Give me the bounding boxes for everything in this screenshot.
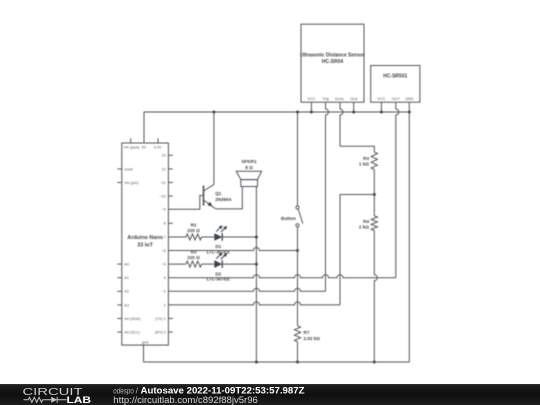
svg-text:HC-SR501: HC-SR501 <box>383 74 407 80</box>
LED D1 LTL-307EE symbol <box>214 233 222 241</box>
svg-text:VCC: VCC <box>307 97 315 101</box>
svg-text:A1: A1 <box>124 276 129 280</box>
ultrasonic sensor U2 HC-SR04 box <box>301 24 364 102</box>
svg-text:Q1: Q1 <box>215 191 222 196</box>
svg-text:reset: reset <box>124 167 133 171</box>
svg-text:LAB: LAB <box>67 395 92 405</box>
svg-text:~3: ~3 <box>161 290 165 294</box>
svg-text:http://circuitlab.com/c892f88j: http://circuitlab.com/c892f88jv5r96 <box>113 395 258 405</box>
switch SW1 Button <box>296 206 299 209</box>
svg-text:2.02 kΩ: 2.02 kΩ <box>304 336 321 341</box>
svg-text:220 Ω: 220 Ω <box>187 228 200 233</box>
node junction R4 at ground bus <box>373 361 376 364</box>
wire R3 to D2 <box>202 263 215 265</box>
svg-text:220 Ω: 220 Ω <box>187 255 200 260</box>
svg-text:~5: ~5 <box>161 263 165 267</box>
svg-text:R7: R7 <box>304 330 310 335</box>
svg-text:Ultrasonic Distance Sensor: Ultrasonic Distance Sensor <box>300 53 365 59</box>
node junction button top on 5V rail <box>296 111 299 114</box>
svg-text:HC-SR04: HC-SR04 <box>322 59 344 65</box>
svg-text:Gnd: Gnd <box>350 97 357 101</box>
svg-text:A5 (SCL): A5 (SCL) <box>124 331 140 335</box>
svg-text:gnd: gnd <box>142 340 148 344</box>
resistor R7 2.02k <box>294 326 300 342</box>
svg-text:~10: ~10 <box>159 195 165 199</box>
wire D2 cathode to speaker leg <box>222 263 256 265</box>
mcu U1 Arduino Nano 33 IoT box <box>122 143 169 345</box>
svg-text:(TX) 1: (TX) 1 <box>155 317 166 321</box>
svg-text:~9: ~9 <box>161 208 165 212</box>
wire divider node to R4 <box>373 195 375 216</box>
pin stubs left side (reset, Vin(pin), A0-A5) <box>117 168 121 170</box>
svg-text:A0: A0 <box>124 263 129 267</box>
wire HC-SR04 VCC pin to rail <box>310 102 312 112</box>
svg-text:(RX) 0: (RX) 0 <box>155 331 166 335</box>
node junction HC-SR501 VCC on rail <box>380 111 383 114</box>
wire pin ~3 row to Trig <box>168 288 325 291</box>
transistor Q1 2N3904 <box>203 186 205 206</box>
pin stub Vin (jack) top <box>130 138 132 143</box>
wire Arduino pin ~9 to Q1 base <box>168 196 203 210</box>
node junction Q1 collector on 5V rail <box>212 111 215 114</box>
node junction R7 at ground bus <box>296 361 299 364</box>
LED D2 LTL-307EE symbol <box>214 260 222 268</box>
wire Q1 emitter to speaker left leg <box>216 187 243 209</box>
wire speaker right leg down to ground bus <box>255 187 257 363</box>
svg-text:R3: R3 <box>363 156 369 161</box>
svg-text:8: 8 <box>164 222 166 226</box>
footer bar <box>0 384 540 405</box>
wire HC-SR04 Echo down over rail to R3 top <box>340 102 343 146</box>
svg-text:GND: GND <box>405 97 414 101</box>
svg-text:A4 (SDA): A4 (SDA) <box>124 317 141 321</box>
svg-text:A3: A3 <box>124 303 129 307</box>
wire HC-SR04 Trig down over rail to pin ~3 row <box>326 102 329 291</box>
resistor R3 1k <box>371 152 377 169</box>
wire HC-SR04 Gnd pin to rail <box>353 102 355 112</box>
node junction HC-SR04 VCC on rail <box>310 111 313 114</box>
resistor R2 220 ohm <box>186 234 202 240</box>
wire 5V rail down to button <box>297 112 299 206</box>
wire HC-SR501 VCC pin to rail <box>380 102 382 112</box>
svg-text:R4: R4 <box>363 219 369 224</box>
PIR sensor U3 HC-SR501 box <box>371 66 420 103</box>
svg-text:2 kΩ: 2 kΩ <box>359 224 369 229</box>
svg-text:8 Ω: 8 Ω <box>245 165 253 170</box>
svg-text:12: 12 <box>162 167 166 171</box>
pin stub 3.3V top <box>157 138 159 143</box>
svg-text:D2: D2 <box>215 271 221 276</box>
wire HC-SR501 GND pin down to ground bus <box>408 102 410 362</box>
wire D1 cathode to speaker leg <box>222 236 256 238</box>
wire R4 bottom to ground bus hopping pin 4 row <box>374 231 377 363</box>
svg-text:33 IoT: 33 IoT <box>137 243 153 249</box>
svg-text:4: 4 <box>164 276 166 280</box>
svg-text:~6: ~6 <box>161 249 165 253</box>
wire Arduino gnd pin to ground bus <box>143 345 145 362</box>
svg-text:Button: Button <box>281 216 296 221</box>
wire Q1 collector to 5V rail <box>213 112 215 185</box>
node junction HC-SR04 Gnd on rail <box>352 111 355 114</box>
svg-text:Arduino Nano: Arduino Nano <box>127 235 163 241</box>
wire R2 to D1 <box>202 236 215 238</box>
svg-text:2: 2 <box>164 303 166 307</box>
resistor R3 220 ohm <box>186 261 202 267</box>
wire R3 bottom to divider node <box>373 170 375 195</box>
svg-text:D1: D1 <box>215 244 221 249</box>
svg-text:~11: ~11 <box>160 181 166 185</box>
wire pin 2 row <box>168 302 340 305</box>
svg-text:5V: 5V <box>142 146 147 150</box>
svg-text:1 kΩ: 1 kΩ <box>359 161 369 166</box>
svg-text:2N3904: 2N3904 <box>215 197 232 202</box>
wire R7 bottom to ground bus <box>297 342 299 362</box>
node junction divider midpoint <box>373 193 376 196</box>
wire Arduino pin 4 to HC-SR501 OUT <box>168 275 395 278</box>
svg-text:Trig: Trig <box>322 97 328 101</box>
pin stubs unconnected right side (13,12,~11,~10,8,TX1,RX0) <box>168 154 172 156</box>
node junction pin ~6 at button wire <box>296 249 299 252</box>
svg-text:A2: A2 <box>124 290 129 294</box>
svg-text:3.3V: 3.3V <box>154 146 162 150</box>
wire ground bus bottom <box>144 361 410 363</box>
svg-text:VCC: VCC <box>377 97 385 101</box>
node junction D1 row at speaker leg <box>255 236 258 239</box>
wire 5V rail from Arduino 5V to sensor supply pins <box>144 112 409 143</box>
node junction D2 row at speaker leg <box>255 263 258 266</box>
svg-text:Vin (pin): Vin (pin) <box>124 181 139 185</box>
svg-text:OUT: OUT <box>392 97 401 101</box>
wire button bottom down to R7 <box>297 227 299 326</box>
speaker SPKR1 symbol <box>236 171 261 179</box>
wire divider node left and down to pin 2 row <box>340 195 374 305</box>
svg-text:Echo: Echo <box>335 97 344 101</box>
node junction speaker leg at ground bus <box>255 361 258 364</box>
node junction HC-SR501 GND on rail <box>408 111 411 114</box>
wire Arduino pin ~6 to button bottom <box>168 248 297 251</box>
svg-text:7: 7 <box>164 235 166 239</box>
wire Arduino pin 7 to R2 <box>168 236 186 238</box>
svg-text:Vin (jack): Vin (jack) <box>124 146 140 150</box>
svg-text:13: 13 <box>162 154 166 158</box>
resistor R4 2k <box>371 216 377 231</box>
svg-text:SPKR1: SPKR1 <box>241 159 257 164</box>
wire Arduino pin ~5 to R3 <box>168 263 186 265</box>
